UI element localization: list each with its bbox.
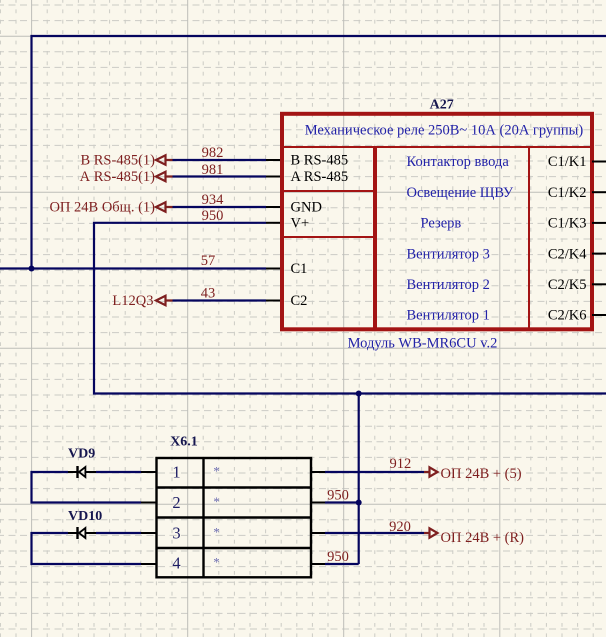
relay module RS-485 group divider <box>282 190 375 192</box>
svg-text:ОП 24В Общ. (1): ОП 24В Общ. (1) <box>49 200 155 216</box>
svg-text:*: * <box>213 495 219 509</box>
svg-text:4: 4 <box>172 554 180 573</box>
interruption arrow OP 24V + (S) <box>424 467 438 476</box>
wire net 57 branch up and to right edge <box>32 36 606 269</box>
svg-text:43: 43 <box>201 286 216 302</box>
pin stub C2/K6 <box>592 314 606 316</box>
wire terminal 3 to diode VD10 loop <box>32 533 142 564</box>
svg-text:912: 912 <box>390 456 412 472</box>
pin stub C2/K5 <box>592 283 606 285</box>
wire 934 to pin GND <box>173 206 267 208</box>
relay module title divider <box>282 146 592 148</box>
wire 950 from pin V+ down and to right edge <box>94 223 606 394</box>
terminal 3 stub left <box>141 532 157 534</box>
junction dot net 950 at horizontal run <box>356 391 362 397</box>
svg-text:V+: V+ <box>291 216 310 232</box>
terminal block X6.1 outline <box>157 458 312 577</box>
svg-text:934: 934 <box>202 192 225 208</box>
diode VD9 <box>68 466 96 478</box>
svg-text:L12Q3: L12Q3 <box>112 293 153 309</box>
wire 950 terminal 2 to vertical <box>325 501 359 503</box>
svg-text:Освещение ЩВУ: Освещение ЩВУ <box>407 185 514 201</box>
relay module left column divider (thick) <box>373 147 377 329</box>
junction dot net 950 at terminal 2 <box>356 500 362 506</box>
svg-text:*: * <box>213 526 219 540</box>
svg-text:Механическое реле 250В~ 10А (2: Механическое реле 250В~ 10А (20А группы) <box>305 123 584 139</box>
svg-text:ОП 24В + (R): ОП 24В + (R) <box>441 530 525 546</box>
wire net 57 horizontal from left edge to pin C1 <box>0 267 266 269</box>
svg-text:X6.1: X6.1 <box>170 435 198 450</box>
svg-text:950: 950 <box>202 208 224 224</box>
svg-text:B RS-485: B RS-485 <box>291 153 349 169</box>
svg-text:Резерв: Резерв <box>421 216 462 232</box>
pin stub B RS-485 <box>266 159 281 161</box>
svg-text:C2/K6: C2/K6 <box>548 308 587 324</box>
wire terminal 1 to diode VD9 loop <box>32 472 142 503</box>
terminal block row divider 2-3 <box>157 516 312 518</box>
interruption arrow L12Q3 <box>156 296 173 305</box>
terminal block X6.1 inner vertical divider <box>202 458 204 577</box>
wire 43 to pin C2 <box>173 299 267 301</box>
wire diode VD9 to terminal 1 <box>96 471 141 473</box>
svg-text:982: 982 <box>202 145 224 161</box>
pin stub C2 <box>266 300 281 302</box>
svg-text:C2/K4: C2/K4 <box>548 246 587 262</box>
pin stub A RS-485 <box>266 176 281 178</box>
terminal 2 stub right <box>311 502 325 504</box>
svg-text:2: 2 <box>172 493 180 512</box>
pin stub C1 <box>266 268 281 270</box>
relay module A27 outline <box>282 114 592 329</box>
pin stub C2/K4 <box>592 253 606 255</box>
wire 920 from terminal 3 to arrow <box>325 532 424 534</box>
terminal block row divider 1-2 <box>157 486 312 488</box>
terminal 1 stub left <box>141 471 157 473</box>
relay module right column divider <box>528 147 530 329</box>
terminal 1 stub right <box>311 471 325 473</box>
interruption arrow OP 24V + (R) <box>424 528 438 537</box>
svg-text:C1/K2: C1/K2 <box>548 185 587 201</box>
svg-text:981: 981 <box>202 162 224 178</box>
interruption arrow OP 24V Obshch (1) <box>156 202 173 211</box>
svg-text:VD9: VD9 <box>68 447 95 462</box>
svg-text:C2/K5: C2/K5 <box>548 277 587 293</box>
svg-text:3: 3 <box>172 524 180 543</box>
terminal 4 stub left <box>141 563 157 565</box>
terminal block row divider 3-4 <box>157 547 312 549</box>
pin stub GND <box>266 206 281 208</box>
svg-text:C1/K1: C1/K1 <box>548 154 587 170</box>
svg-text:В RS-485(1): В RS-485(1) <box>80 153 155 169</box>
svg-text:950: 950 <box>327 488 349 504</box>
terminal 2 stub left <box>141 502 157 504</box>
wire 982 to pin B RS-485 <box>173 159 267 161</box>
svg-text:Модуль WB-MR6CU v.2: Модуль WB-MR6CU v.2 <box>348 336 498 352</box>
pin stub V+ <box>266 222 281 224</box>
wire 950 terminal 4 to vertical <box>325 563 359 565</box>
interruption arrow A RS-485(1) <box>156 172 173 181</box>
svg-text:*: * <box>213 465 219 479</box>
svg-text:Контактор ввода: Контактор ввода <box>407 154 510 170</box>
terminal 3 stub right <box>311 532 325 534</box>
svg-text:C1/K3: C1/K3 <box>548 216 587 232</box>
svg-text:C2: C2 <box>291 293 308 309</box>
svg-text:GND: GND <box>291 200 322 216</box>
terminal 4 stub right <box>311 563 325 565</box>
diode VD10 <box>68 527 96 539</box>
svg-text:A27: A27 <box>430 98 454 113</box>
svg-text:A RS-485: A RS-485 <box>291 169 349 185</box>
wire 950 vertical drop to terminal block <box>358 394 360 565</box>
svg-text:*: * <box>213 556 219 570</box>
pin stub C1/K2 <box>592 191 606 193</box>
wire diode VD10 to terminal 3 <box>96 532 141 534</box>
wire 912 from terminal 1 to arrow <box>325 471 424 473</box>
junction dot at net 57 branch <box>29 266 35 272</box>
svg-text:ОП 24В + (5): ОП 24В + (5) <box>441 466 522 482</box>
svg-text:C1: C1 <box>291 261 308 277</box>
pin stub C1/K1 <box>592 161 606 163</box>
svg-text:Вентилятор 2: Вентилятор 2 <box>407 277 490 293</box>
relay module power group divider <box>282 236 375 238</box>
svg-text:Вентилятор 1: Вентилятор 1 <box>407 308 490 324</box>
svg-text:920: 920 <box>389 519 411 535</box>
svg-text:Вентилятор 3: Вентилятор 3 <box>407 246 490 262</box>
svg-text:57: 57 <box>201 253 216 269</box>
interruption arrow B RS-485(1) <box>156 155 173 164</box>
svg-text:1: 1 <box>172 463 180 482</box>
svg-text:А RS-485(1): А RS-485(1) <box>80 169 155 185</box>
svg-text:VD10: VD10 <box>68 509 102 524</box>
wire 981 to pin A RS-485 <box>173 175 267 177</box>
svg-text:950: 950 <box>327 549 349 565</box>
pin stub C1/K3 <box>592 222 606 224</box>
